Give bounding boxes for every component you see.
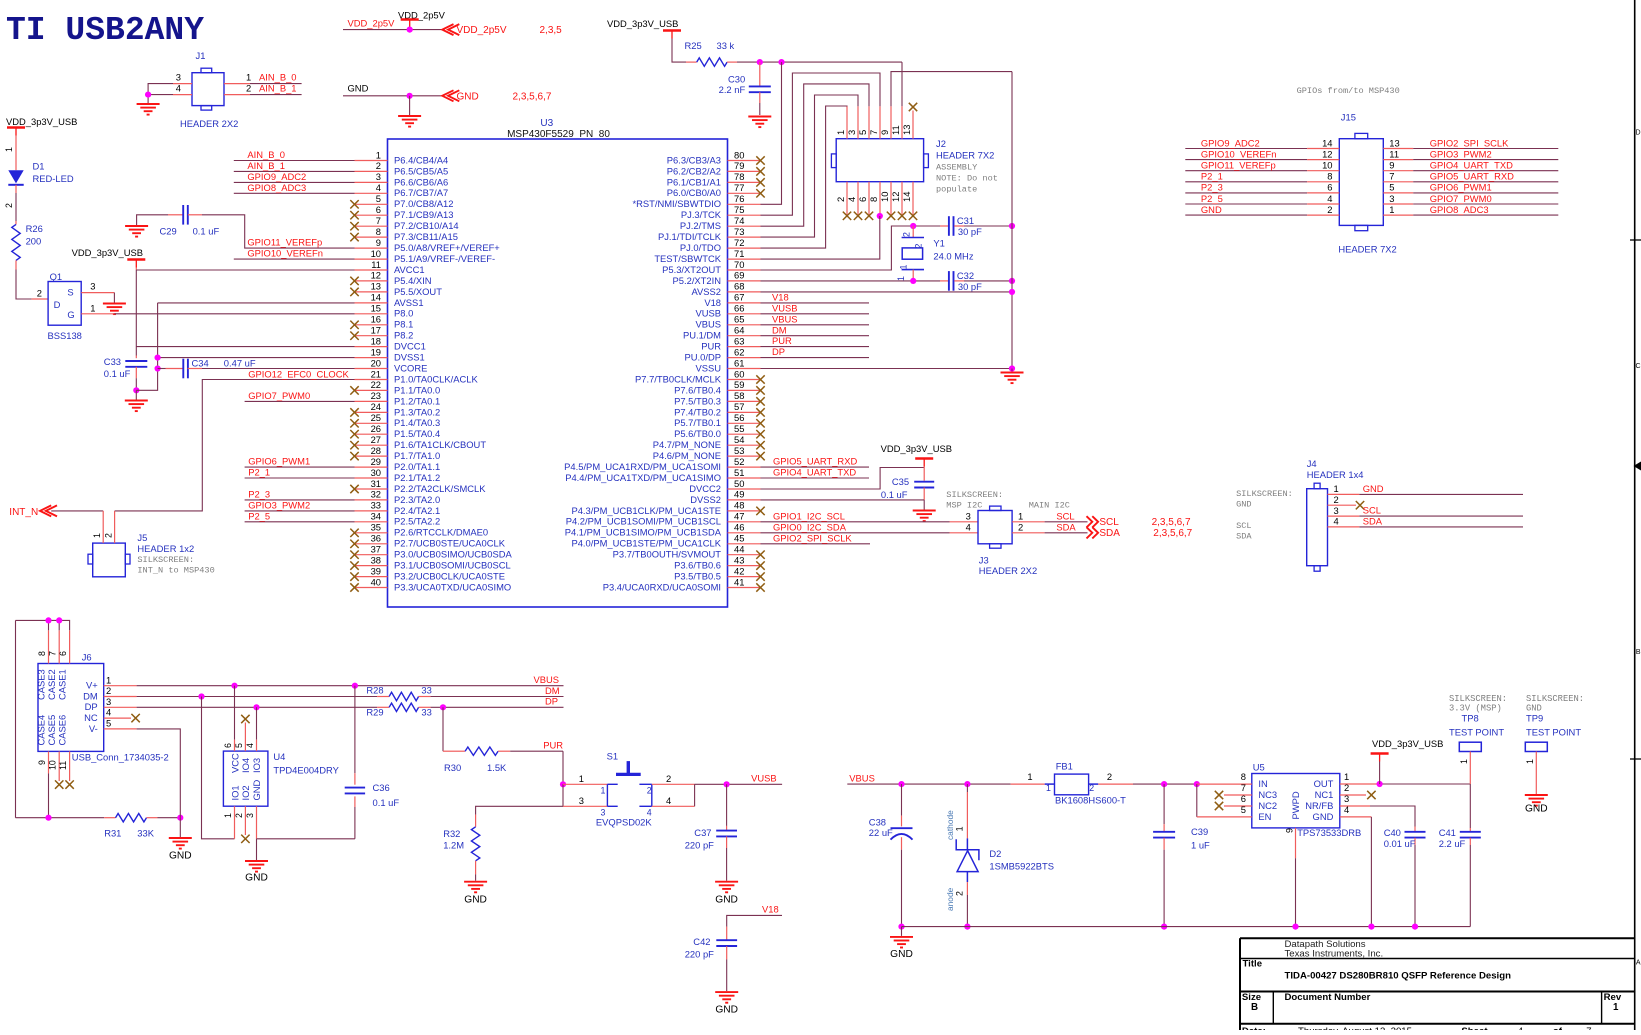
sheet title TI USB2ANY <box>6 12 204 49</box>
svg-text:0.1 uF: 0.1 uF <box>193 226 220 237</box>
svg-text:1 uF: 1 uF <box>1191 840 1210 851</box>
junction J6 pin7 <box>56 617 62 623</box>
test point TP9 <box>1525 694 1584 794</box>
svg-text:U5: U5 <box>1253 761 1265 772</box>
svg-text:P3.4/UCA0RXD/UCA0SOMI: P3.4/UCA0RXD/UCA0SOMI <box>603 581 721 592</box>
U5 pin 6 no-connect <box>1215 793 1252 810</box>
svg-text:1: 1 <box>601 786 606 796</box>
svg-text:DVSS1: DVSS1 <box>394 352 425 363</box>
svg-text:AIN_B_0: AIN_B_0 <box>259 72 297 83</box>
svg-text:75: 75 <box>734 204 744 215</box>
svg-text:P7.1/CB9/A13: P7.1/CB9/A13 <box>394 209 453 220</box>
off-page connector INT_N <box>9 505 57 518</box>
svg-text:R26: R26 <box>26 223 43 234</box>
J15 pin 7 net GPIO5_UART_RXD <box>1383 171 1558 182</box>
svg-text:TP8: TP8 <box>1462 713 1479 724</box>
U4 pin 2 no-connect <box>234 806 250 843</box>
svg-text:7: 7 <box>1586 1026 1591 1030</box>
svg-text:25: 25 <box>371 412 381 423</box>
no-connect U3 right pins <box>756 156 764 591</box>
svg-text:6: 6 <box>223 743 233 748</box>
U5 pin 4 GND <box>1340 804 1372 927</box>
svg-text:7: 7 <box>1389 171 1394 182</box>
svg-text:28: 28 <box>371 445 381 456</box>
svg-text:4: 4 <box>1327 193 1332 204</box>
svg-text:1: 1 <box>1018 511 1023 522</box>
svg-text:GND: GND <box>457 91 479 102</box>
wire J2 pin1 to PJ.0/TDO <box>761 106 848 248</box>
svg-text:22: 22 <box>371 379 381 390</box>
svg-text:C33: C33 <box>104 356 121 367</box>
svg-text:INT_N to MSP430: INT_N to MSP430 <box>137 566 214 576</box>
svg-text:2: 2 <box>37 288 42 299</box>
svg-text:3: 3 <box>376 171 381 182</box>
power symbol VDD_3p3V_USB (U5 OUT) <box>1371 738 1444 784</box>
svg-text:AVSS2: AVSS2 <box>691 286 721 297</box>
frame zone letter C <box>1635 363 1640 370</box>
svg-text:10: 10 <box>879 192 890 202</box>
svg-text:TPS73533DRB: TPS73533DRB <box>1297 827 1361 838</box>
svg-text:3: 3 <box>846 130 857 135</box>
wire GPIO1_I2C_SCL to J3 pin3 <box>761 521 979 523</box>
svg-text:P3.1/UCB0SOMI/UCB0SCL: P3.1/UCB0SOMI/UCB0SCL <box>394 560 511 571</box>
svg-text:4: 4 <box>666 795 671 806</box>
svg-text:27: 27 <box>371 434 381 445</box>
header J5 <box>88 511 215 577</box>
svg-text:0.01 uF: 0.01 uF <box>1384 838 1416 849</box>
svg-text:GND: GND <box>715 1005 738 1016</box>
ground (C42) <box>715 992 738 1016</box>
svg-text:DM: DM <box>772 324 787 335</box>
svg-text:P2.5/TA2.2: P2.5/TA2.2 <box>394 516 440 527</box>
wire AVSS2 to bus <box>761 291 1013 293</box>
svg-text:P3.2/UCB0CLK/UCA0STE: P3.2/UCB0CLK/UCA0STE <box>394 571 505 582</box>
svg-text:C41: C41 <box>1439 827 1456 838</box>
junction VUSB / C37 <box>724 781 730 787</box>
svg-text:NR/FB: NR/FB <box>1305 800 1333 811</box>
ground (C37) <box>715 882 738 906</box>
svg-text:CASE2: CASE2 <box>46 669 57 700</box>
svg-text:DP: DP <box>85 701 98 712</box>
resistor R25 <box>685 40 735 66</box>
svg-text:IO3: IO3 <box>251 758 262 773</box>
svg-text:A: A <box>1636 960 1641 967</box>
svg-text:2: 2 <box>1334 494 1339 505</box>
svg-text:P1.6/TA1CLK/CBOUT: P1.6/TA1CLK/CBOUT <box>394 439 486 450</box>
crystal Y1 <box>896 226 974 281</box>
svg-text:53: 53 <box>734 445 744 456</box>
capacitor C41 2.2uF <box>1439 784 1481 927</box>
svg-text:HEADER 2X2: HEADER 2X2 <box>979 565 1037 576</box>
svg-text:PU.1/DM: PU.1/DM <box>683 330 721 341</box>
wire PUR net to S1 <box>510 739 563 784</box>
svg-text:11: 11 <box>371 259 381 270</box>
net VBUS (U3) <box>761 313 870 324</box>
svg-text:1.5K: 1.5K <box>487 762 507 773</box>
net V18 (U3) <box>761 292 870 303</box>
net AIN_B_0 (U3 pin1) <box>234 149 355 160</box>
svg-text:GPIO1_I2C_SCL: GPIO1_I2C_SCL <box>773 510 845 521</box>
svg-text:R30: R30 <box>444 762 461 773</box>
svg-text:P6.2/CB2/A2: P6.2/CB2/A2 <box>667 165 721 176</box>
svg-text:3: 3 <box>579 795 584 806</box>
svg-text:2: 2 <box>666 773 671 784</box>
svg-text:2: 2 <box>914 244 924 249</box>
svg-text:V-: V- <box>89 723 98 734</box>
svg-text:3: 3 <box>966 511 971 522</box>
junction U5 GND ground <box>1368 924 1374 930</box>
svg-text:GPIO7_PWM0: GPIO7_PWM0 <box>248 390 310 401</box>
svg-text:P4.1/PM_UCB1SIMO/PM_UCB1SDA: P4.1/PM_UCB1SIMO/PM_UCB1SDA <box>565 527 722 538</box>
svg-text:33: 33 <box>421 685 431 696</box>
svg-text:1: 1 <box>955 826 965 831</box>
svg-text:33: 33 <box>421 707 431 718</box>
junction OUT / VDD bar <box>1377 781 1383 787</box>
svg-text:P2.2/TA2CLK/SMCLK: P2.2/TA2CLK/SMCLK <box>394 483 486 494</box>
svg-text:SDA: SDA <box>1236 532 1252 542</box>
junction C32 bus <box>1009 278 1015 284</box>
svg-text:2: 2 <box>1018 522 1023 533</box>
svg-text:IN: IN <box>1258 778 1267 789</box>
net V18 to C42 <box>727 904 782 927</box>
U5 pin 9 PWPD <box>1284 828 1295 927</box>
wire GND net <box>343 83 442 96</box>
J2 top pin stubs 1,3,5,7,9,11,13 <box>835 106 913 139</box>
svg-text:P6.1/CB1/A1: P6.1/CB1/A1 <box>667 176 721 187</box>
wire J2 pin9 to GND bus <box>891 72 1012 107</box>
svg-text:SILKSCREEN:: SILKSCREEN: <box>137 555 194 565</box>
capacitor C29 <box>160 205 220 237</box>
svg-text:26: 26 <box>371 423 381 434</box>
svg-text:GND: GND <box>1525 804 1548 815</box>
svg-text:V+: V+ <box>86 680 98 691</box>
svg-text:GPIO8_ADC3: GPIO8_ADC3 <box>1430 204 1489 215</box>
net P2_1 (U3 pin30) <box>245 467 355 478</box>
svg-text:P2_3: P2_3 <box>1201 182 1223 193</box>
title block Rev cell <box>1604 992 1622 1013</box>
svg-text:9: 9 <box>37 760 47 765</box>
svg-text:2,3,5,6,7: 2,3,5,6,7 <box>513 91 552 102</box>
svg-text:FB1: FB1 <box>1056 760 1073 771</box>
svg-text:5: 5 <box>376 193 381 204</box>
svg-text:73: 73 <box>734 226 744 237</box>
svg-text:C29: C29 <box>160 226 177 237</box>
svg-text:GPIOs from/to MSP430: GPIOs from/to MSP430 <box>1297 86 1400 96</box>
svg-text:33K: 33K <box>137 828 154 839</box>
LED D1 <box>4 136 74 209</box>
svg-text:P5.6/TB0.0: P5.6/TB0.0 <box>674 428 721 439</box>
svg-text:DVCC1: DVCC1 <box>394 341 426 352</box>
svg-text:36: 36 <box>371 533 381 544</box>
svg-text:4: 4 <box>1334 516 1339 527</box>
svg-text:66: 66 <box>734 303 744 314</box>
svg-text:C30: C30 <box>728 74 745 85</box>
svg-text:78: 78 <box>734 171 744 182</box>
svg-text:P1.2/TA0.1: P1.2/TA0.1 <box>394 395 440 406</box>
wire J6 V- to R31 node <box>104 729 181 818</box>
svg-text:2,3,5,6,7: 2,3,5,6,7 <box>1152 517 1191 528</box>
svg-text:SCL: SCL <box>1099 517 1119 528</box>
svg-text:P7.2/CB10/A14: P7.2/CB10/A14 <box>394 220 459 231</box>
svg-text:30: 30 <box>371 467 381 478</box>
U4 pin 5 no-connect <box>234 715 250 751</box>
svg-text:1: 1 <box>1613 1002 1619 1013</box>
svg-text:NC3: NC3 <box>1258 789 1277 800</box>
svg-text:B: B <box>1251 1002 1258 1013</box>
svg-text:14: 14 <box>1322 137 1332 148</box>
svg-text:Thursday, August 13, 2015: Thursday, August 13, 2015 <box>1298 1026 1412 1030</box>
svg-text:P3.6/TB0.6: P3.6/TB0.6 <box>674 560 721 571</box>
svg-text:2: 2 <box>955 891 965 896</box>
svg-text:14: 14 <box>901 192 912 202</box>
svg-text:2.2 nF: 2.2 nF <box>719 84 746 95</box>
svg-text:SDA: SDA <box>1363 516 1383 527</box>
svg-text:C39: C39 <box>1191 826 1208 837</box>
svg-text:PJ.2/TMS: PJ.2/TMS <box>680 220 721 231</box>
svg-text:P6.0/CB0/A0: P6.0/CB0/A0 <box>667 187 721 198</box>
svg-text:of: of <box>1553 1026 1563 1030</box>
svg-text:GPIO11_VEREFp: GPIO11_VEREFp <box>1201 160 1276 171</box>
wire U4 GND to C36 bottom <box>257 838 355 840</box>
svg-text:5: 5 <box>857 130 868 135</box>
ground (U4) <box>245 861 268 884</box>
svg-text:2: 2 <box>1107 771 1112 782</box>
svg-text:0.1 uF: 0.1 uF <box>881 489 908 500</box>
net GPIO3_PWM2 (U3 pin33) <box>245 500 355 511</box>
svg-text:VCC: VCC <box>229 753 240 773</box>
svg-text:C36: C36 <box>373 782 390 793</box>
svg-text:IO2: IO2 <box>240 785 251 800</box>
ground (C35) <box>913 511 936 522</box>
svg-text:P3.7/TB0OUTH/SVMOUT: P3.7/TB0OUTH/SVMOUT <box>613 549 722 560</box>
svg-text:10: 10 <box>1322 160 1332 171</box>
svg-text:PUR: PUR <box>701 341 721 352</box>
note GPIOs from/to MSP430 <box>1297 86 1400 96</box>
J15 pin 14 net GPIO9_ADC2 <box>1185 137 1339 148</box>
svg-text:17: 17 <box>371 325 381 336</box>
svg-text:P1.1/TA0.0: P1.1/TA0.0 <box>394 384 440 395</box>
J1 pin 2 <box>224 83 251 95</box>
U5 pin 7 no-connect <box>1215 782 1252 799</box>
svg-text:2: 2 <box>104 533 114 538</box>
no-connect J2 pins 10,12,14 <box>887 212 917 220</box>
svg-text:64: 64 <box>734 325 744 336</box>
wire AVSS rail x=157.6 <box>136 303 354 390</box>
capacitor C37 <box>685 784 737 880</box>
junction R30 branch <box>440 704 446 710</box>
svg-text:P1.7/TA1.0: P1.7/TA1.0 <box>394 450 440 461</box>
svg-text:13: 13 <box>371 281 381 292</box>
resistor R26 <box>12 223 43 260</box>
capacitor C34 on VCORE <box>158 358 355 379</box>
junction VCORE <box>155 365 161 371</box>
svg-text:60: 60 <box>734 368 744 379</box>
ground (R32) <box>464 882 487 906</box>
svg-text:SCL: SCL <box>1236 521 1251 531</box>
svg-text:GPIO4_UART_TXD: GPIO4_UART_TXD <box>1430 160 1513 171</box>
svg-text:65: 65 <box>734 314 744 325</box>
svg-text:PU.0/DP: PU.0/DP <box>685 352 721 363</box>
Q1 source to ground <box>81 293 114 303</box>
net label AIN_B_1 (J1) <box>250 83 302 95</box>
wire J2 pin8 to TEST/SBWTCK <box>761 216 880 259</box>
wire VBUS net (J6 V+) <box>104 674 564 686</box>
svg-text:44: 44 <box>734 544 744 555</box>
wire Q1 gate to P8.0 <box>81 313 354 315</box>
svg-text:GND: GND <box>169 851 192 862</box>
svg-text:62: 62 <box>734 346 744 357</box>
svg-text:1.2M: 1.2M <box>443 840 464 851</box>
svg-text:1: 1 <box>106 674 111 685</box>
capacitor C30 <box>719 62 771 95</box>
svg-text:BSS138: BSS138 <box>48 330 82 341</box>
svg-text:SILKSCREEN:: SILKSCREEN: <box>946 490 1003 500</box>
svg-text:P1.3/TA0.2: P1.3/TA0.2 <box>394 406 440 417</box>
svg-text:55: 55 <box>734 423 744 434</box>
svg-text:PJ.1/TDI/TCLK: PJ.1/TDI/TCLK <box>658 231 722 242</box>
svg-text:2: 2 <box>835 197 846 202</box>
capacitor C39 1uF <box>1153 784 1210 927</box>
ground (TP9) <box>1525 795 1548 815</box>
U5 pin 3 NR/FB to C40 <box>1340 793 1415 827</box>
wire J3 pin1 SCL <box>1012 521 1087 523</box>
svg-text:GND: GND <box>1313 811 1334 822</box>
svg-text:2: 2 <box>246 83 251 94</box>
no-connect J6 pin 4 NC <box>104 714 140 722</box>
svg-text:4: 4 <box>176 83 181 94</box>
svg-text:GND: GND <box>251 779 262 800</box>
wire GPIO0_I2C_SDA to J3 pin4 <box>761 532 979 534</box>
svg-text:P2.0/TA1.1: P2.0/TA1.1 <box>394 461 440 472</box>
power symbol VDD_3p3V_USB (D1) <box>6 116 77 136</box>
svg-text:5: 5 <box>234 743 244 748</box>
junction J6 pin8 <box>45 617 51 623</box>
svg-text:11: 11 <box>890 125 901 135</box>
wire DVSS2 to C35 ground <box>761 488 925 510</box>
svg-text:45: 45 <box>734 533 744 544</box>
svg-text:P6.7/CB7/A7: P6.7/CB7/A7 <box>394 187 448 198</box>
svg-text:19: 19 <box>371 346 381 357</box>
J15 pin 9 net GPIO4_UART_TXD <box>1383 160 1558 171</box>
junction U4 IO1 branch <box>198 693 204 699</box>
svg-text:4: 4 <box>106 707 111 718</box>
svg-text:C31: C31 <box>957 215 974 226</box>
svg-text:GPIO2_SPI_SCLK: GPIO2_SPI_SCLK <box>773 532 852 543</box>
silkscreen note J4 <box>1236 489 1293 542</box>
svg-text:1: 1 <box>835 130 846 135</box>
svg-text:P2.6/RTCCLK/DMAE0: P2.6/RTCCLK/DMAE0 <box>394 527 488 538</box>
svg-text:2: 2 <box>647 786 652 796</box>
svg-text:40: 40 <box>371 576 381 587</box>
svg-text:21: 21 <box>371 368 381 379</box>
frame arrow marker <box>1634 462 1641 471</box>
net GPIO8_ADC3 (U3 pin4) <box>234 182 355 193</box>
svg-text:0.47 uF: 0.47 uF <box>224 358 256 369</box>
ground (Q1 source) <box>103 304 126 315</box>
svg-text:P7.6/TB0.4: P7.6/TB0.4 <box>674 384 721 395</box>
svg-text:200: 200 <box>26 236 42 247</box>
svg-text:59: 59 <box>734 379 744 390</box>
svg-text:48: 48 <box>734 500 744 511</box>
wire XT2IN row to C32 <box>761 280 941 282</box>
J15 pin 2 net GND <box>1185 204 1339 215</box>
U5 pin 2 no-connect <box>1340 782 1376 799</box>
U4 pin 6 VCC from VBUS <box>223 686 235 751</box>
net DM (U3) <box>761 324 870 335</box>
svg-text:GPIO6_PWM1: GPIO6_PWM1 <box>248 456 310 467</box>
junction VSSU bus <box>1009 365 1015 371</box>
svg-text:VUSB: VUSB <box>695 308 721 319</box>
svg-text:VDD_3p3V_USB: VDD_3p3V_USB <box>1372 738 1443 749</box>
svg-text:P4.6/PM_NONE: P4.6/PM_NONE <box>653 450 721 461</box>
capacitor C33 <box>104 356 148 379</box>
svg-text:6: 6 <box>1241 793 1246 804</box>
svg-text:P5.2/XT2IN: P5.2/XT2IN <box>673 275 721 286</box>
test point TP8 <box>1449 694 1507 784</box>
svg-text:2,3,5,6,7: 2,3,5,6,7 <box>1153 528 1192 539</box>
ground (R31) <box>169 818 192 862</box>
svg-text:R31: R31 <box>104 828 121 839</box>
junction RST vertical <box>778 59 784 65</box>
wire VDD to R25 <box>672 39 697 63</box>
svg-text:GPIO9_ADC2: GPIO9_ADC2 <box>1201 137 1260 148</box>
svg-text:P4.7/PM_NONE: P4.7/PM_NONE <box>653 439 721 450</box>
svg-text:GPIO11_VEREFp: GPIO11_VEREFp <box>247 237 322 248</box>
header J4 <box>1307 458 1364 571</box>
svg-text:49: 49 <box>734 489 744 500</box>
J15 pin 13 net GPIO2_SPI_SCLK <box>1383 137 1558 148</box>
svg-text:7: 7 <box>1241 782 1246 793</box>
svg-text:MSP I2C: MSP I2C <box>946 501 982 511</box>
svg-text:Title: Title <box>1243 959 1263 970</box>
net GPIO10_VEREFn (U3 pin10) <box>234 248 355 259</box>
svg-text:DVCC2: DVCC2 <box>689 483 721 494</box>
junction C40 ground <box>1412 924 1418 930</box>
svg-text:33 k: 33 k <box>717 40 735 51</box>
svg-text:DM: DM <box>545 685 560 696</box>
title block Document Number cell <box>1285 992 1371 1003</box>
svg-text:7: 7 <box>48 651 58 656</box>
svg-text:R25: R25 <box>685 40 702 51</box>
svg-text:OUT: OUT <box>1314 778 1334 789</box>
net GPIO6_PWM1 (U3 pin29) <box>245 456 355 467</box>
wire DVCC2 to VDD <box>761 467 925 490</box>
svg-text:P7.4/TB0.2: P7.4/TB0.2 <box>674 406 721 417</box>
svg-text:77: 77 <box>734 182 744 193</box>
svg-text:CASE5: CASE5 <box>46 715 57 746</box>
svg-text:29: 29 <box>371 456 381 467</box>
wire J6 shield bottom to R31 <box>16 817 105 819</box>
svg-text:3: 3 <box>176 72 181 83</box>
svg-text:P4.0/PM_UCB1STE/PM_UCA1CLK: P4.0/PM_UCB1STE/PM_UCA1CLK <box>571 538 721 549</box>
J15 pin 4 net P2_5 <box>1185 193 1339 204</box>
svg-text:1: 1 <box>899 265 909 270</box>
U4 pin 3 GND <box>245 806 257 860</box>
ground (U3 AVSS bus) <box>1001 369 1024 384</box>
wire ground rail (power section) <box>902 926 1471 928</box>
svg-text:P2.4/TA2.1: P2.4/TA2.1 <box>394 505 440 516</box>
wire VSSU to bus <box>761 368 1013 370</box>
svg-text:P2.1/TA1.2: P2.1/TA1.2 <box>394 472 440 483</box>
svg-text:SCL: SCL <box>1363 505 1381 516</box>
svg-text:35: 35 <box>371 522 381 533</box>
svg-text:38: 38 <box>371 554 381 565</box>
svg-text:GPIO0_I2C_SDA: GPIO0_I2C_SDA <box>773 521 847 532</box>
svg-text:C35: C35 <box>892 476 909 487</box>
svg-text:PWPD: PWPD <box>1290 791 1301 819</box>
svg-text:56: 56 <box>734 412 744 423</box>
svg-text:2.2 uF: 2.2 uF <box>1439 838 1466 849</box>
